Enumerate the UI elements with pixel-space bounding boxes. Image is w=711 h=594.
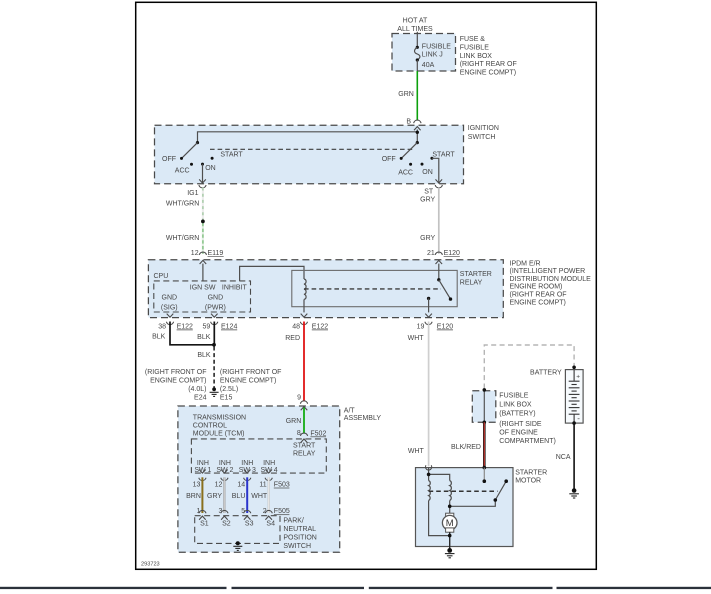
svg-text:NEUTRAL: NEUTRAL xyxy=(283,526,316,533)
ground E24/E15 captions xyxy=(145,369,207,401)
wire BLK from 38 xyxy=(170,322,214,345)
ignition switch section 2 wiper xyxy=(416,141,419,144)
svg-text:(RIGHT SIDE: (RIGHT SIDE xyxy=(499,421,542,428)
svg-text:(RIGHT REAR OF: (RIGHT REAR OF xyxy=(510,292,567,299)
starter solenoid wiring xyxy=(429,468,496,536)
wire E119 to IGN SW pin xyxy=(202,264,204,281)
node HOT AT ALL TIMES label xyxy=(397,17,433,32)
switch 1 contacts OFF ACC ON START xyxy=(162,151,243,174)
svg-text:IPDM E/R: IPDM E/R xyxy=(510,260,541,267)
wire WHT 19 to starter motor xyxy=(428,322,430,467)
IPDM caption xyxy=(510,260,592,306)
svg-text:ST: ST xyxy=(424,189,434,196)
svg-text:BLK: BLK xyxy=(197,352,211,359)
svg-text:ON: ON xyxy=(205,165,216,172)
svg-text:TRANSMISSION: TRANSMISSION xyxy=(193,414,246,421)
svg-text:STARTER: STARTER xyxy=(460,271,492,278)
P/N switch caption xyxy=(283,518,316,550)
svg-text:12: 12 xyxy=(191,250,199,257)
svg-text:13: 13 xyxy=(193,482,201,489)
svg-text:S4: S4 xyxy=(266,521,275,528)
svg-text:WHT: WHT xyxy=(251,493,268,500)
svg-text:S2: S2 xyxy=(222,521,231,528)
wire switch2 START to ST xyxy=(432,158,439,183)
svg-text:NCA: NCA xyxy=(556,454,571,461)
svg-text:WHT/GRN: WHT/GRN xyxy=(166,235,199,242)
svg-text:FUSE &: FUSE & xyxy=(460,36,486,43)
wire GRY ST to E120 xyxy=(420,188,439,254)
svg-text:(BATTERY): (BATTERY) xyxy=(499,410,535,417)
svg-text:38: 38 xyxy=(158,323,166,330)
svg-text:GRY: GRY xyxy=(207,493,222,500)
starter contact armature xyxy=(495,481,506,500)
A/T assembly box (dashed) xyxy=(178,406,340,552)
page border frame xyxy=(136,2,597,569)
svg-text:BLK: BLK xyxy=(152,334,166,341)
svg-text:OF ENGINE: OF ENGINE xyxy=(499,430,538,437)
battery xyxy=(530,366,583,424)
svg-text:S1: S1 xyxy=(200,521,209,528)
wire WHT/GRN IG1 to E119 xyxy=(166,188,203,254)
starter mechanical link (dashed) xyxy=(429,490,498,492)
svg-text:-: - xyxy=(577,414,580,423)
TCM pin connectors 13 12 14 11 F503 xyxy=(199,470,272,481)
svg-text:ENGINE COMPT): ENGINE COMPT) xyxy=(220,378,276,385)
svg-text:21: 21 xyxy=(427,250,435,257)
relay mechanical link (dashed) xyxy=(304,288,441,290)
wire battery negative to ground xyxy=(573,423,575,489)
svg-text:INHIBIT: INHIBIT xyxy=(222,285,248,292)
node IG1 connector xyxy=(199,185,206,188)
svg-text:SWITCH: SWITCH xyxy=(468,134,496,141)
svg-text:GRY: GRY xyxy=(420,235,435,242)
wire stub into fuse box xyxy=(416,32,418,34)
wire GRN from fuse box to B xyxy=(416,71,418,120)
svg-text:12: 12 xyxy=(215,482,223,489)
wire GRN 9 to F502 xyxy=(303,408,305,434)
svg-text:(RIGHT FRONT OF: (RIGHT FRONT OF xyxy=(220,369,282,376)
svg-text:INH: INH xyxy=(241,460,253,467)
svg-text:S3: S3 xyxy=(245,521,254,528)
svg-text:ALL TIMES: ALL TIMES xyxy=(397,26,433,33)
park/neutral position switch box (dashed) xyxy=(195,516,280,544)
ground battery xyxy=(569,488,579,498)
svg-text:CONTROL: CONTROL xyxy=(193,422,227,429)
node 48 E122 connector xyxy=(285,314,328,342)
svg-text:PARK/: PARK/ xyxy=(283,518,304,525)
svg-text:OFF: OFF xyxy=(382,156,396,163)
svg-text:POSITION: POSITION xyxy=(283,535,316,542)
svg-text:BRN: BRN xyxy=(186,493,201,500)
wire E120 to relay contact xyxy=(438,264,440,280)
switch 2 contacts OFF ACC ON START xyxy=(382,151,456,176)
svg-text:LINK BOX: LINK BOX xyxy=(499,402,532,409)
fuse box caption xyxy=(460,36,517,77)
svg-text:ENGINE COMPT): ENGINE COMPT) xyxy=(460,70,516,77)
relay contact and armature xyxy=(427,278,452,301)
svg-text:INH: INH xyxy=(197,460,209,467)
svg-text:START: START xyxy=(432,151,455,158)
node feed junction xyxy=(416,131,419,134)
svg-text:(INTELLIGENT POWER: (INTELLIGENT POWER xyxy=(510,268,586,275)
svg-text:E24: E24 xyxy=(194,394,207,401)
relay coil xyxy=(304,279,306,299)
svg-text:(2.5L): (2.5L) xyxy=(220,386,238,393)
svg-text:RED: RED xyxy=(285,335,300,342)
fusible link box battery (dashed) xyxy=(472,391,496,422)
wire BLK from 59 xyxy=(213,322,215,345)
node splice on WHT/GRN xyxy=(201,220,205,224)
node 38 E122 connector xyxy=(152,314,193,341)
svg-text:IGN SW: IGN SW xyxy=(190,285,216,292)
wire INHIBIT to relay coil xyxy=(240,266,304,281)
svg-text:MOTOR: MOTOR xyxy=(515,478,541,485)
wire BLU pin14 to pin5 xyxy=(246,477,248,513)
svg-text:GRN: GRN xyxy=(286,418,302,425)
wire dashed battery loop xyxy=(484,345,574,389)
svg-text:DISTRIBUTION MODULE: DISTRIBUTION MODULE xyxy=(510,276,592,283)
svg-text:GND: GND xyxy=(208,295,224,302)
svg-text:19: 19 xyxy=(417,323,425,330)
fuse &amp; fusible link box (dashed) xyxy=(392,34,456,72)
svg-text:(PWR): (PWR) xyxy=(205,305,226,312)
svg-text:COMPARTMENT): COMPARTMENT) xyxy=(499,438,556,445)
wire BLK dashed to ground xyxy=(213,347,215,388)
svg-text:+: + xyxy=(576,373,580,380)
svg-text:E15: E15 xyxy=(220,394,233,401)
svg-text:GRY: GRY xyxy=(420,197,435,204)
svg-text:WHT: WHT xyxy=(408,335,425,342)
svg-text:START: START xyxy=(220,151,243,158)
svg-text:IG1: IG1 xyxy=(187,190,198,197)
svg-text:293723: 293723 xyxy=(141,562,160,568)
svg-text:11: 11 xyxy=(259,482,266,489)
svg-text:WHT/GRN: WHT/GRN xyxy=(166,201,199,208)
svg-text:GND: GND xyxy=(162,295,178,302)
svg-text:RELAY: RELAY xyxy=(293,450,316,457)
svg-text:BATTERY: BATTERY xyxy=(530,370,562,377)
svg-text:E122: E122 xyxy=(177,323,193,330)
starter motor box xyxy=(416,468,514,547)
node BLK junction xyxy=(212,343,216,347)
svg-text:A/T: A/T xyxy=(344,408,356,415)
svg-text:40A: 40A xyxy=(422,62,435,69)
svg-text:LINK J: LINK J xyxy=(422,52,443,59)
wire RED 48 to A/T xyxy=(303,322,305,402)
bottom table rule segments xyxy=(0,587,711,589)
svg-text:BLU: BLU xyxy=(232,493,246,500)
svg-text:F502: F502 xyxy=(310,430,326,437)
svg-text:INH: INH xyxy=(219,460,231,467)
motor M xyxy=(442,513,457,549)
svg-text:E119: E119 xyxy=(208,250,224,257)
node 21 E120 connector xyxy=(427,250,460,257)
node 19 E120 connector xyxy=(408,314,454,342)
svg-text:B: B xyxy=(406,119,411,126)
svg-text:MODULE (TCM): MODULE (TCM) xyxy=(193,430,245,437)
svg-text:ENGINE COMPT): ENGINE COMPT) xyxy=(150,378,206,385)
svg-text:E124: E124 xyxy=(221,323,237,330)
svg-text:OFF: OFF xyxy=(162,156,176,163)
TCM INH SW labels xyxy=(194,460,277,474)
IPDM E/R box (dashed) xyxy=(148,260,503,318)
svg-text:ON: ON xyxy=(422,169,433,176)
wire switch1 ON to IG1 xyxy=(202,164,204,183)
svg-text:E120: E120 xyxy=(437,323,453,330)
svg-text:59: 59 xyxy=(203,323,211,330)
ground in P/N switch xyxy=(233,541,242,550)
svg-text:48: 48 xyxy=(292,323,300,330)
P/N switch pin connectors 1 3 5 2 F505 xyxy=(196,508,289,515)
svg-text:ENGINE ROOM): ENGINE ROOM) xyxy=(510,284,563,291)
svg-text:IGNITION: IGNITION xyxy=(468,125,499,132)
ignition switch mechanical link (dashed) xyxy=(210,148,413,150)
TCM box (dashed) xyxy=(191,439,326,473)
ignition switch section 1 wiper xyxy=(196,141,199,144)
node 12 E119 connector xyxy=(191,250,224,257)
node E120 entry arrow xyxy=(436,260,443,264)
svg-text:F503: F503 xyxy=(274,482,290,489)
wire GRY pin12 to pin3 xyxy=(223,477,225,513)
TCM caption xyxy=(193,414,246,437)
svg-text:STARTER: STARTER xyxy=(515,469,547,476)
svg-text:(RIGHT FRONT OF: (RIGHT FRONT OF xyxy=(145,369,207,376)
wire BLK/RED to starter motor xyxy=(483,422,486,467)
svg-text:E120: E120 xyxy=(444,250,460,257)
svg-text:WHT: WHT xyxy=(408,448,425,455)
node E119 entry arrow xyxy=(200,260,207,264)
svg-text:START: START xyxy=(293,443,316,450)
svg-text:(RIGHT REAR OF: (RIGHT REAR OF xyxy=(460,61,517,68)
wire colour labels xyxy=(186,493,268,500)
svg-text:BLK/RED: BLK/RED xyxy=(451,444,481,451)
svg-text:SWITCH: SWITCH xyxy=(283,543,311,550)
svg-text:CPU: CPU xyxy=(154,273,169,280)
svg-text:HOT AT: HOT AT xyxy=(403,17,428,24)
ignition switch box (dashed) xyxy=(155,125,464,184)
wire WHT pin11 to pin2 xyxy=(268,477,270,513)
svg-text:F505: F505 xyxy=(274,508,290,515)
svg-text:RELAY: RELAY xyxy=(460,279,483,286)
svg-text:ACC: ACC xyxy=(175,167,190,174)
starter relay box xyxy=(292,270,457,306)
CPU box (dashed) xyxy=(154,281,251,312)
node 59 E124 connector xyxy=(197,314,237,342)
svg-text:(SIG): (SIG) xyxy=(161,305,178,312)
node 8 F502 connector xyxy=(297,430,327,443)
svg-text:(4.0L): (4.0L) xyxy=(188,386,206,393)
svg-text:ACC: ACC xyxy=(398,170,413,177)
svg-text:E122: E122 xyxy=(312,323,328,330)
wire relay output down xyxy=(428,298,430,312)
ground starter motor xyxy=(445,548,455,558)
node WHT entry connector xyxy=(426,465,432,470)
svg-text:ENGINE COMPT): ENGINE COMPT) xyxy=(510,300,566,307)
svg-text:LINK BOX: LINK BOX xyxy=(460,53,493,60)
svg-text:INH: INH xyxy=(263,460,275,467)
svg-text:BLK: BLK xyxy=(197,334,211,341)
svg-text:GRN: GRN xyxy=(398,91,414,98)
wire feed from B inside switch xyxy=(198,130,418,143)
svg-text:14: 14 xyxy=(237,482,245,489)
svg-text:9: 9 xyxy=(297,394,301,401)
svg-text:ASSEMBLY: ASSEMBLY xyxy=(344,415,382,422)
svg-text:FUSIBLE: FUSIBLE xyxy=(499,392,529,399)
svg-text:FUSIBLE: FUSIBLE xyxy=(460,44,490,51)
fusible link box caption xyxy=(499,392,556,445)
node ST connector xyxy=(435,185,442,188)
wire BRN pin13 to pin1 xyxy=(201,477,203,513)
svg-text:FUSIBLE: FUSIBLE xyxy=(422,43,452,50)
node BLK/RED entry xyxy=(483,466,487,470)
ground symbol E15 xyxy=(210,387,219,396)
fusible link J 40A symbol xyxy=(415,34,452,72)
